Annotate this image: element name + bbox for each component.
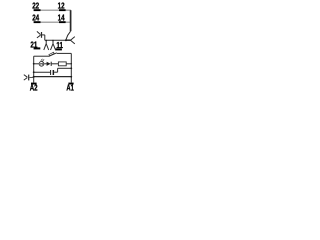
svg-text:A2: A2 — [30, 84, 38, 93]
svg-text:14: 14 — [58, 13, 66, 22]
svg-text:24: 24 — [32, 13, 40, 22]
svg-text:12: 12 — [58, 1, 66, 10]
svg-text:A1: A1 — [66, 84, 74, 93]
svg-text:21: 21 — [30, 40, 38, 49]
svg-text:22: 22 — [32, 1, 40, 10]
svg-text:11: 11 — [56, 41, 63, 50]
